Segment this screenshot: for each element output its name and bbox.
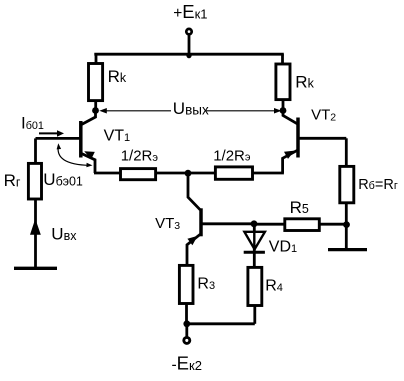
svg-text:Uвых: Uвых <box>173 99 209 118</box>
svg-text:Rб=Rг: Rб=Rг <box>358 177 398 193</box>
